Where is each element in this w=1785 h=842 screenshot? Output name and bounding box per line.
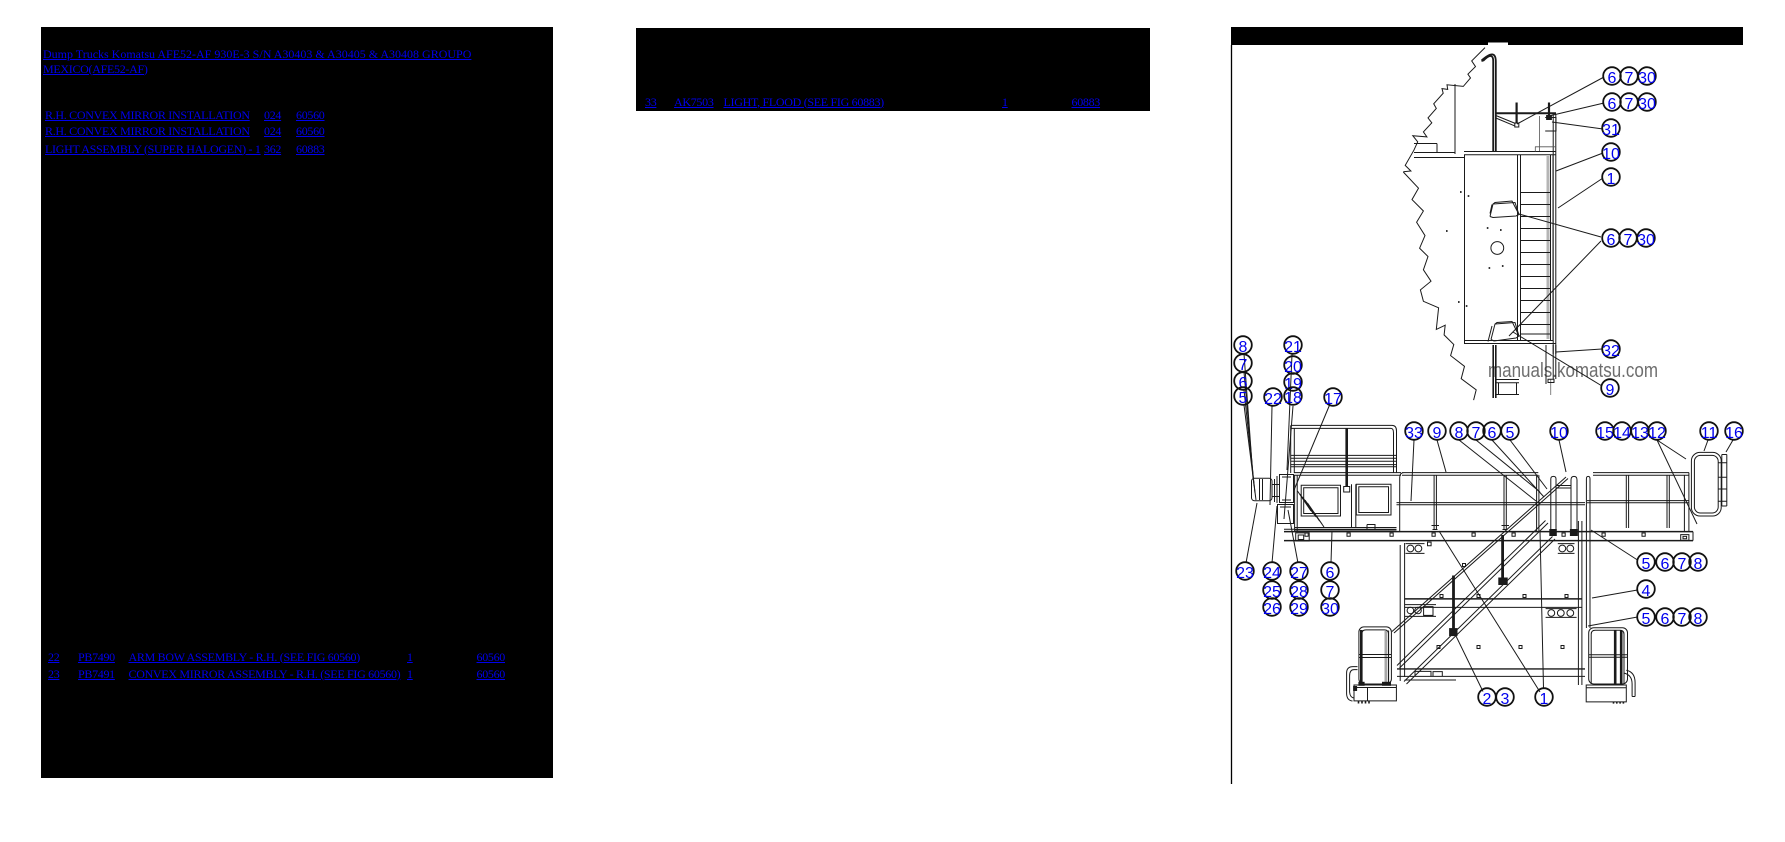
leader 10 bottom xyxy=(1559,440,1566,472)
tall right rail (down to body) xyxy=(1586,476,1590,628)
diagram header black bar xyxy=(1231,27,1743,45)
leader 6-7-30 row B xyxy=(1551,103,1604,116)
svg-text:7: 7 xyxy=(1678,556,1687,573)
upper view: antenna post 1 xyxy=(1515,103,1517,124)
right deck band square xyxy=(1681,535,1689,541)
balloon 19 xyxy=(1284,373,1302,393)
deck band right end cap xyxy=(1692,532,1694,541)
mirror clamp lower xyxy=(1278,505,1294,524)
balloon 22 xyxy=(1264,388,1282,408)
balloon 3 xyxy=(1496,688,1514,708)
right landing base xyxy=(1586,685,1626,702)
leader 12 (two) xyxy=(1657,440,1697,524)
svg-text:16: 16 xyxy=(1725,425,1743,442)
balloon 30 xyxy=(1321,598,1339,618)
hole group A xyxy=(1406,542,1432,553)
svg-text:31: 31 xyxy=(1602,122,1620,139)
mirror arm links xyxy=(1272,476,1279,503)
upper view: ladder right rail inner xyxy=(1550,155,1552,340)
right-end platform inner loop xyxy=(1694,455,1718,513)
link row: R.H. convex mirror installation 2 xyxy=(45,124,250,139)
leader 1 bottom (two lines) xyxy=(1439,531,1544,692)
svg-text:2: 2 xyxy=(1483,691,1492,708)
balloon 1 xyxy=(1535,688,1553,708)
balloon 7 xyxy=(1620,93,1638,113)
link: page title line 1 xyxy=(43,47,471,62)
leader 21 xyxy=(1287,355,1292,471)
balloon 13 xyxy=(1631,422,1649,442)
svg-text:32: 32 xyxy=(1602,343,1620,360)
balloon 6 xyxy=(1603,67,1621,87)
link row: item 23 convex mirror assembly xyxy=(48,667,59,682)
upper view: lower ladder left rails xyxy=(1493,345,1496,398)
header bar white notch xyxy=(1488,43,1508,46)
right deck posts xyxy=(1626,473,1689,531)
deck left posts xyxy=(1434,475,1539,531)
cab handrail mid rail (thick) xyxy=(1291,455,1397,466)
balloon 6 xyxy=(1602,229,1620,249)
leader 5678 row1 xyxy=(1591,530,1638,560)
upper view: torn-edge body panel outline (lower zigzag) xyxy=(1403,172,1476,400)
strut 1 foot block xyxy=(1450,629,1457,636)
cab body sides and bottom xyxy=(1295,475,1397,531)
balloon 7 xyxy=(1321,581,1339,601)
balloon 8 xyxy=(1234,336,1252,356)
svg-text:6: 6 xyxy=(1661,611,1670,628)
svg-text:27: 27 xyxy=(1290,565,1308,582)
link row: light assembly xyxy=(45,142,261,157)
leader 5 col xyxy=(1244,405,1256,500)
svg-text:24: 24 xyxy=(1263,565,1281,582)
balloon 32 xyxy=(1602,340,1620,360)
svg-text:1: 1 xyxy=(1540,691,1549,708)
cab right window xyxy=(1356,484,1391,515)
leader 22 xyxy=(1270,406,1272,505)
right landing hook xyxy=(1624,670,1636,696)
svg-text:5: 5 xyxy=(1506,425,1515,442)
balloon 6 xyxy=(1483,422,1501,442)
leader 7 col xyxy=(1244,372,1254,486)
leader 17 xyxy=(1294,404,1330,490)
balloon 7 xyxy=(1620,67,1638,87)
leader 10 upper xyxy=(1556,153,1603,171)
body panel mid beam xyxy=(1404,598,1582,600)
leader 9 upper xyxy=(1513,332,1602,386)
upper view: mirror arm diagonal (double) xyxy=(1496,116,1516,126)
upper view: upper grab handle xyxy=(1490,201,1519,218)
staircase lower stringer xyxy=(1404,537,1555,685)
upper view: cab rear post with curved top xyxy=(1482,54,1496,151)
balloon 8 xyxy=(1689,553,1707,573)
upper view: ladder shading band xyxy=(1547,156,1550,339)
link row: R.H. convex mirror installation 1 xyxy=(45,108,250,123)
cab handrail center post foot xyxy=(1344,487,1350,493)
upper view: lower bench seat xyxy=(1496,380,1519,395)
svg-text:3: 3 xyxy=(1501,691,1510,708)
right landing base feet xyxy=(1614,702,1624,704)
body panel right edge xyxy=(1578,521,1582,685)
left landing right side shading xyxy=(1385,631,1388,684)
svg-text:15: 15 xyxy=(1596,425,1614,442)
balloon 24 xyxy=(1263,562,1281,582)
left landing base corner block xyxy=(1354,687,1357,691)
link: page title line 2 xyxy=(43,62,148,77)
upper view: panel ledge double line xyxy=(1414,144,1465,158)
svg-text:18: 18 xyxy=(1284,390,1302,407)
svg-text:5: 5 xyxy=(1642,611,1651,628)
upper view: small box below post 2 xyxy=(1545,118,1556,132)
upper view: cab front vertical double edge xyxy=(1553,114,1556,354)
upper view: fender top line (thick) xyxy=(1496,112,1556,114)
balloon 30 xyxy=(1638,67,1656,87)
right-end platform outer loop xyxy=(1691,452,1721,516)
deck mid rail xyxy=(1397,503,1586,505)
balloon 28 xyxy=(1290,581,1308,601)
balloon 9 xyxy=(1601,379,1619,399)
body bottom skirt line xyxy=(1405,679,1456,681)
leader 16 xyxy=(1726,440,1733,452)
stair loop feet xyxy=(1550,530,1557,536)
leader 2 xyxy=(1455,634,1483,692)
svg-text:23: 23 xyxy=(1236,565,1254,582)
balloon 5 xyxy=(1234,387,1252,407)
svg-text:7: 7 xyxy=(1678,611,1687,628)
stair opening loop 2 xyxy=(1571,476,1577,535)
left landing rail foot blocks xyxy=(1359,682,1364,685)
balloon 2 xyxy=(1478,688,1496,708)
upper view: body box outline xyxy=(1464,155,1556,344)
upper view: antenna post 2 xyxy=(1548,103,1550,119)
svg-text:7: 7 xyxy=(1624,232,1633,249)
svg-text:21: 21 xyxy=(1284,339,1302,356)
balloon 18 xyxy=(1284,387,1302,407)
leader 33 bottom xyxy=(1411,440,1414,501)
upper view: deck floor double line xyxy=(1464,152,1556,155)
balloon 17 xyxy=(1324,388,1342,408)
balloon 31 xyxy=(1602,119,1620,139)
balloon 20 xyxy=(1284,356,1302,376)
svg-text:6: 6 xyxy=(1661,556,1670,573)
left landing thick left bar xyxy=(1360,630,1363,684)
svg-text:13: 13 xyxy=(1631,425,1649,442)
svg-text:33: 33 xyxy=(1405,425,1423,442)
right landing thick side bars xyxy=(1615,631,1621,685)
balloon 9 xyxy=(1428,422,1446,442)
balloon 11 xyxy=(1700,422,1718,442)
leader 31 xyxy=(1552,122,1603,129)
leader 8 col xyxy=(1244,354,1253,478)
balloon 16 xyxy=(1725,422,1743,442)
hole group D xyxy=(1405,605,1436,617)
svg-text:7: 7 xyxy=(1625,96,1634,113)
balloon 30 xyxy=(1638,93,1656,113)
left landing hook xyxy=(1347,667,1358,701)
upper view: lower grab handle xyxy=(1488,322,1519,342)
balloon 30 xyxy=(1637,229,1655,249)
balloon 21 xyxy=(1284,336,1302,356)
mirror head xyxy=(1252,478,1273,501)
body panel left edge xyxy=(1400,543,1404,681)
balloon 33 xyxy=(1405,422,1423,442)
leader 8 bottom xyxy=(1459,440,1536,501)
balloon 12 xyxy=(1648,422,1666,442)
svg-text:6: 6 xyxy=(1608,70,1617,87)
right-end platform back bracket xyxy=(1718,455,1727,507)
stair bolt squares xyxy=(1463,564,1505,583)
balloon 6 xyxy=(1656,608,1674,628)
leader 9 bottom xyxy=(1437,440,1446,472)
upper view: bolt dots xyxy=(1446,192,1504,306)
upper view: torn-edge body panel outline (upper zigzag) xyxy=(1403,48,1485,172)
balloon 26 xyxy=(1263,598,1281,618)
thick black strut 1 xyxy=(1452,576,1455,630)
svg-text:29: 29 xyxy=(1290,601,1308,618)
mirror clamp upper xyxy=(1280,475,1294,503)
balloon 23 xyxy=(1236,562,1254,582)
hole group C xyxy=(1546,609,1577,618)
upper view: lower ladder foot box xyxy=(1548,379,1554,382)
balloon 7 xyxy=(1673,553,1691,573)
leader 11 xyxy=(1704,440,1708,451)
svg-text:30: 30 xyxy=(1638,70,1656,87)
balloon 6 xyxy=(1321,562,1339,582)
upper view: lower ladder gray drop xyxy=(1550,379,1552,395)
leader 1 upper xyxy=(1558,178,1603,208)
svg-text:12: 12 xyxy=(1648,425,1666,442)
svg-text:8: 8 xyxy=(1694,556,1703,573)
right landing handrail outer xyxy=(1589,628,1628,684)
right deck section rails xyxy=(1587,473,1689,503)
svg-text:11: 11 xyxy=(1701,425,1718,442)
svg-text:6: 6 xyxy=(1326,565,1335,582)
stair loops tie xyxy=(1556,486,1571,489)
middle black panel xyxy=(636,28,1150,111)
leader 4 xyxy=(1592,590,1638,598)
leader 5 bottom xyxy=(1510,440,1547,489)
upper view: antenna post 1 base xyxy=(1515,123,1519,127)
svg-text:9: 9 xyxy=(1606,382,1615,399)
leader 6 col xyxy=(1244,390,1255,493)
upper view: lower ladder right rails xyxy=(1546,345,1556,384)
balloon 7 xyxy=(1619,229,1637,249)
cab handrail center post (thick) xyxy=(1345,428,1348,487)
deck floor band xyxy=(1284,532,1693,541)
staircase upper stringer xyxy=(1397,521,1548,669)
balloon 14 xyxy=(1613,422,1631,442)
deck left section top rail xyxy=(1400,473,1539,531)
strut 2 foot block xyxy=(1499,578,1507,585)
balloon 7 xyxy=(1673,608,1691,628)
leader 7 bottom xyxy=(1476,440,1540,492)
svg-text:manuals.komatsu.com: manuals.komatsu.com xyxy=(1488,360,1658,382)
body panel bolt marks xyxy=(1437,595,1568,649)
svg-text:30: 30 xyxy=(1638,96,1656,113)
balloon 1 xyxy=(1602,168,1620,188)
balloon 15 xyxy=(1596,422,1614,442)
balloon 4 xyxy=(1637,580,1655,600)
svg-text:6: 6 xyxy=(1607,232,1616,249)
hole group B xyxy=(1558,544,1575,554)
balloon 27 xyxy=(1290,562,1308,582)
upper view: ladder left rails xyxy=(1518,155,1521,340)
svg-text:9: 9 xyxy=(1433,425,1442,442)
svg-text:22: 22 xyxy=(1264,391,1282,408)
upper view: deck floor right step xyxy=(1535,116,1556,152)
cab roof double line xyxy=(1294,473,1401,476)
balloon 8 xyxy=(1450,422,1468,442)
stair opening loop 1 xyxy=(1551,476,1556,535)
upper view: inner panel vertical edge xyxy=(1454,84,1456,154)
link row: item 33 light flood (middle panel) xyxy=(645,95,656,110)
balloon 10 xyxy=(1602,143,1620,163)
balloon 10 xyxy=(1550,422,1568,442)
svg-text:6: 6 xyxy=(1608,96,1617,113)
leader 6-7-30 row A xyxy=(1517,77,1604,124)
svg-text:4: 4 xyxy=(1642,583,1651,600)
deck post feet xyxy=(1432,526,1510,530)
link row: item 22 arm bow assembly xyxy=(48,650,59,665)
balloon 5 xyxy=(1637,608,1655,628)
balloon 6 xyxy=(1656,553,1674,573)
left landing base xyxy=(1354,685,1396,701)
svg-text:5: 5 xyxy=(1239,390,1248,407)
svg-text:26: 26 xyxy=(1263,601,1281,618)
balloon 29 xyxy=(1290,598,1308,618)
leader 18 xyxy=(1284,406,1293,519)
cab left window xyxy=(1301,485,1340,516)
leader 6 bottom xyxy=(1492,440,1544,497)
balloon 8 xyxy=(1689,608,1707,628)
balloon 6 xyxy=(1234,372,1252,392)
leader 24 xyxy=(1272,506,1277,563)
upper view: antenna post 2 base xyxy=(1547,116,1552,120)
svg-text:30: 30 xyxy=(1637,232,1655,249)
svg-text:10: 10 xyxy=(1550,425,1568,442)
cab handrail left post xyxy=(1291,425,1295,473)
leader 5678 row2 xyxy=(1588,617,1638,626)
balloon 5 xyxy=(1501,422,1519,442)
svg-text:6: 6 xyxy=(1488,425,1497,442)
balloon 7 xyxy=(1234,354,1252,374)
deck band bolts xyxy=(1305,533,1645,536)
balloon 5 xyxy=(1637,553,1655,573)
balloon 7 xyxy=(1467,422,1485,442)
balloon 25 xyxy=(1263,581,1281,601)
body panel bottom edge xyxy=(1397,668,1585,670)
cab corner hatch strokes xyxy=(1298,491,1325,527)
svg-text:1: 1 xyxy=(1607,171,1616,188)
leader 27 xyxy=(1288,510,1298,563)
staircase handrail diagonal xyxy=(1392,477,1568,633)
left landing handrail inner xyxy=(1362,630,1389,684)
leader 6-7-30 row C (two lines) xyxy=(1509,214,1601,336)
upper view: ladder rungs xyxy=(1521,193,1550,335)
cab handrail top rail xyxy=(1291,425,1397,473)
leader 23 xyxy=(1246,503,1257,563)
leader 32 xyxy=(1556,349,1602,352)
leader 6 mid xyxy=(1331,531,1332,563)
body bottom notch box xyxy=(1433,672,1442,677)
thick black strut 2 xyxy=(1501,535,1504,579)
left landing feet xyxy=(1359,701,1370,704)
right landing handrail inner xyxy=(1591,630,1624,684)
svg-text:7: 7 xyxy=(1625,70,1634,87)
svg-text:8: 8 xyxy=(1455,425,1464,442)
left landing handrail outer xyxy=(1359,627,1392,684)
svg-text:8: 8 xyxy=(1694,611,1703,628)
diagram left border line xyxy=(1231,45,1233,784)
left black panel xyxy=(41,27,553,778)
svg-text:30: 30 xyxy=(1321,601,1339,618)
cab step box xyxy=(1367,525,1375,531)
svg-text:17: 17 xyxy=(1324,391,1342,408)
cab center pillar xyxy=(1352,484,1356,528)
left landing mid rail xyxy=(1359,655,1391,658)
svg-text:10: 10 xyxy=(1602,146,1620,163)
balloon 6 xyxy=(1603,93,1621,113)
right landing mid rail xyxy=(1589,655,1628,658)
svg-text:5: 5 xyxy=(1642,556,1651,573)
upper view: porthole circle xyxy=(1491,242,1504,255)
svg-text:7: 7 xyxy=(1472,425,1481,442)
cab lower-left junction box xyxy=(1296,533,1310,541)
svg-text:14: 14 xyxy=(1613,425,1631,442)
